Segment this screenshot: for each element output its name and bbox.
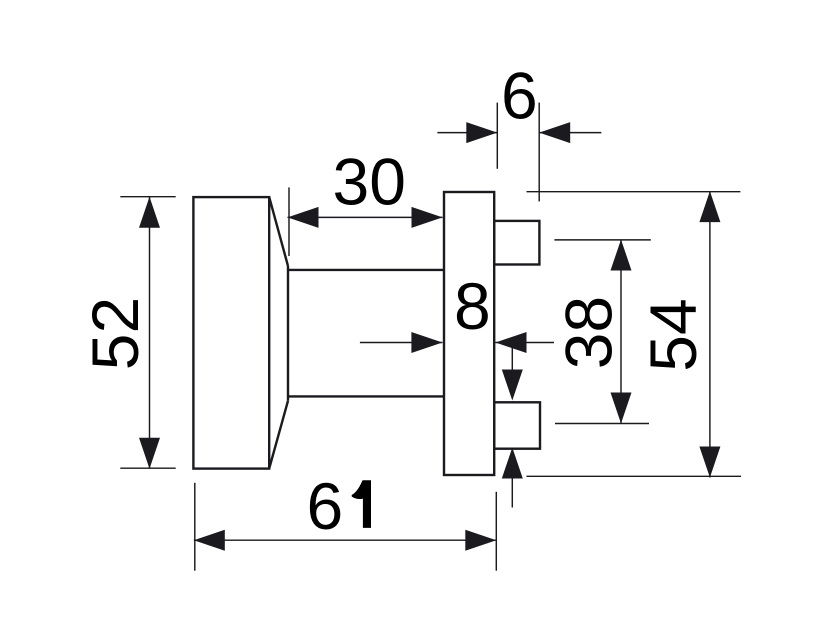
stem bottom edge	[288, 395, 444, 397]
arrow 8 left (pointing right)	[411, 332, 442, 353]
label 61 digit one	[352, 480, 371, 528]
arrow 30 left	[288, 207, 319, 228]
dim 54 extension top	[527, 191, 741, 193]
arrow 52 up	[139, 197, 160, 228]
dim 61 line	[194, 539, 497, 541]
svg-text:38: 38	[551, 296, 625, 369]
svg-text:8: 8	[454, 269, 491, 343]
dim 6 leader right	[539, 132, 601, 134]
pin arrow up	[502, 448, 523, 479]
svg-text:30: 30	[332, 144, 405, 218]
dim 38 extension top	[554, 239, 650, 241]
arrow 8 right (pointing left)	[496, 332, 527, 353]
dim 30 line	[288, 216, 443, 218]
mounting plate outline	[444, 192, 494, 475]
pin height arrow tail lower	[511, 476, 513, 508]
dim 54 line	[709, 191, 711, 477]
lower square pin	[494, 402, 540, 448]
cone top slant	[269, 197, 288, 266]
arrow 54 down	[699, 447, 720, 478]
svg-text:54: 54	[636, 298, 710, 371]
dim 8 leader right	[496, 342, 555, 344]
stem top edge	[288, 269, 444, 271]
dim 6 leader left	[437, 132, 497, 134]
dim 54 extension bottom	[527, 475, 742, 477]
svg-text:52: 52	[78, 297, 152, 370]
dim 61 extension left	[194, 483, 196, 571]
svg-text:6: 6	[501, 59, 538, 133]
pin height arrow tail upper	[511, 344, 513, 372]
arrow 54 up	[699, 191, 720, 222]
arrow 6 left (pointing right)	[466, 122, 497, 143]
dim 52 line	[149, 197, 151, 469]
dim 38 extension bottom	[555, 423, 649, 425]
dim 6 extension right	[538, 103, 540, 202]
dim 6 extension left	[496, 103, 498, 169]
svg-text:6: 6	[306, 469, 343, 543]
dim 8 leader left	[360, 342, 443, 344]
dim 30 extension left	[288, 187, 290, 256]
arrow 38 down	[611, 393, 632, 424]
cone bottom slant	[269, 401, 288, 469]
dim 61 extension right	[495, 492, 497, 571]
dim 52 extension bottom	[120, 467, 175, 469]
pin arrow down	[502, 370, 523, 401]
upper square pin	[494, 221, 539, 265]
knob face plate outline	[193, 197, 269, 469]
arrow 38 up	[611, 240, 632, 271]
arrow 61 right	[465, 530, 496, 551]
dim 52 extension top	[120, 196, 175, 198]
cone rim vertical	[287, 266, 289, 401]
arrow 61 left	[194, 530, 225, 551]
dim 38 line	[620, 240, 622, 424]
arrow 30 right	[412, 207, 443, 228]
arrow 6 right (pointing left)	[539, 122, 570, 143]
arrow 52 down	[139, 438, 160, 469]
